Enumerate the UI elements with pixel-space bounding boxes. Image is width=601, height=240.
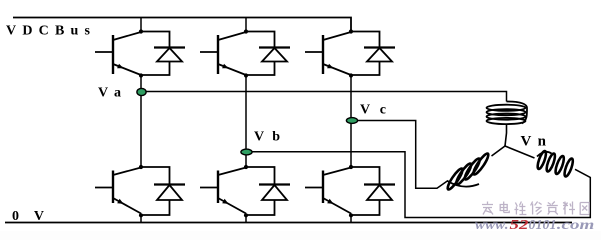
node: Q1 emitter junction [139,73,143,77]
diode D5 [351,32,395,76]
wire: node Vb to winding Lb (right) [246,152,590,218]
svg-text:V n: V n [521,134,547,150]
watermark line 1 (site name glyphs) [482,202,589,215]
diode D2 [141,167,185,215]
wire: phase node down to Q4 collector [245,152,247,167]
diode D6 [351,167,395,215]
transistor Q5 [305,32,351,75]
inductor La (phase a winding, vertical) [487,102,528,125]
node: Q4 emitter junction [244,213,248,217]
node: Q3 emitter junction [244,73,248,77]
node: Q1 collector junction [139,29,143,33]
node Vn (star point) [504,145,506,147]
node: Q5 collector junction [349,29,353,33]
svg-text:.com: .com [557,217,595,231]
wire: node Va to winding La (top) [141,92,507,102]
node Vb [241,149,252,155]
wire: node Vc to winding Lc (left) [351,121,448,189]
svg-text:52: 52 [510,217,529,231]
wire: phase node down to Q6 collector [350,121,352,168]
wire: Q2 emitter to 0V rail [140,215,142,222]
svg-text:0 V: 0 V [12,209,44,224]
transistor Q6 [305,168,351,214]
svg-text:V c: V c [360,103,386,118]
watermark line 2 www.520101.com [475,217,594,232]
wire: phase node down to Q2 collector [140,92,142,167]
svg-text:www.: www. [475,217,509,231]
svg-text:0101: 0101 [529,217,557,231]
svg-text:V b: V b [254,130,280,145]
wire: Q3 emitter to node Vb [245,76,247,153]
node: Q5 emitter junction [349,73,353,77]
wire: Q1 emitter to node Va [140,76,142,93]
wire: VDC bus to Q1 collector [140,18,142,32]
transistor Q4 [200,168,246,214]
node: Q3 collector junction [244,29,248,33]
transistor Q1 [95,32,141,75]
inductor Lc (phase c winding, lower-left diagonal) [446,152,491,191]
wire: VDC bus to Q3 collector [245,18,247,32]
transistor Q3 [200,32,246,75]
diode D3 [246,32,290,76]
wire: Q5 emitter to node Vc [350,76,352,121]
wire: Q6 emitter to 0V rail [350,215,352,222]
node: Q2 collector junction [139,165,143,169]
inductor Lb (phase b winding, lower-right diagonal) [536,150,574,177]
0V bottom rail wire [5,222,572,224]
diode D1 [141,32,185,76]
wire: Q4 emitter to 0V rail [245,215,247,222]
wire: star point Vn to winding Lc [492,146,506,156]
diode D4 [246,167,290,215]
svg-text:VDCBus: VDCBus [6,24,91,39]
node Va [137,88,146,95]
node: Q6 collector junction [349,165,353,169]
VDC bus top rail wire [13,18,351,32]
node: Q4 collector junction [244,165,248,169]
svg-text:V a: V a [98,86,121,101]
transistor Q2 [95,168,141,214]
wire: star point Vn to winding Lb [505,146,535,158]
node Vc [346,118,357,124]
node: Q2 emitter junction [139,213,143,217]
wire: winding La to star point Vn [505,124,507,147]
node: Q6 emitter junction [349,213,353,217]
